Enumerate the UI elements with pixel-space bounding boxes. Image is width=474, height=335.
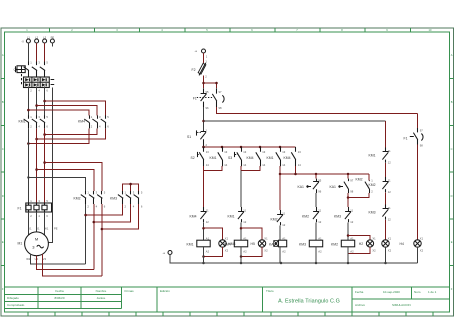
svg-text:96: 96 (318, 190, 321, 194)
svg-text:KM2: KM2 (356, 178, 363, 182)
contact NC KM3 stacked (369, 205, 392, 222)
wire KM4 pole2 return (45, 128, 98, 134)
svg-text:A2: A2 (282, 249, 286, 253)
svg-text:14: 14 (262, 163, 265, 167)
svg-text:13: 13 (298, 150, 301, 154)
coil KM1 (187, 237, 211, 254)
wire L1 drop to Q1 (27, 43, 29, 61)
svg-text:C: C (451, 147, 453, 151)
right info cells (355, 290, 437, 307)
svg-text:12: 12 (350, 220, 353, 224)
wire KM4 pole1 return (28, 128, 89, 143)
connector block X (24, 77, 55, 92)
svg-text:X2: X2 (420, 248, 424, 252)
svg-text:D: D (451, 194, 453, 198)
svg-text:X2: X2 (264, 248, 268, 252)
branch KM2: KA1 NO timed contact (330, 174, 354, 194)
svg-text:U1: U1 (28, 227, 32, 231)
svg-text:KM1: KM1 (267, 156, 274, 160)
wire F1 to motor V1 (36, 212, 38, 232)
svg-text:12: 12 (388, 190, 391, 194)
svg-text:D: D (2, 194, 4, 198)
wire L2 drop to Q1 (36, 43, 38, 61)
svg-text:1 de 1: 1 de 1 (428, 290, 437, 294)
terminal L1 (21, 36, 30, 44)
svg-text:KM1: KM1 (210, 156, 217, 160)
wire y121 to stacked column (204, 120, 386, 122)
contact KM4 feed right section (284, 147, 302, 167)
wire L2 branch to KM4 (37, 106, 98, 116)
svg-text:Num.: Num. (414, 290, 421, 294)
wire to coil KM3 (315, 222, 317, 240)
wire KM2 pole3 down (101, 204, 103, 276)
control circuit (163, 49, 424, 264)
svg-text:M1: M1 (18, 242, 23, 246)
svg-text:KM1: KM1 (369, 154, 376, 158)
left ruler row letters (2, 53, 4, 291)
svg-text:KM4: KM4 (190, 215, 197, 219)
svg-text:H2: H2 (359, 242, 363, 246)
svg-text:Janice: Janice (97, 296, 106, 300)
svg-text:E: E (451, 240, 453, 244)
wire L3 block to KM1 (44, 87, 46, 116)
svg-text:98: 98 (219, 106, 222, 110)
node lamp H2 return join (202, 255, 205, 258)
inner border frame (5, 32, 450, 312)
wire motor U2 return (37, 256, 94, 270)
wire to coil KM2 (347, 222, 349, 240)
svg-text:13: 13 (282, 150, 285, 154)
svg-text:KM4: KM4 (78, 120, 85, 124)
contact NC KM2 interlock branch KM3 (302, 207, 322, 224)
node KM4 return L2 (35, 138, 38, 141)
svg-text:Firmas: Firmas (125, 289, 135, 293)
svg-text:14: 14 (282, 163, 285, 167)
node rail KM3 coil (315, 262, 318, 265)
svg-text:11: 11 (388, 149, 391, 153)
node L2 to KM4 pole2 (35, 104, 38, 107)
svg-text:B: B (2, 100, 4, 104)
top rail (204, 146, 296, 149)
svg-text:PE: PE (54, 227, 58, 231)
svg-text:13: 13 (206, 150, 209, 154)
pushbutton S2 (191, 146, 210, 167)
node secondary rail KM1 (279, 173, 282, 176)
wire 98 to right feed (217, 107, 418, 113)
title block outline (5, 287, 450, 312)
contact S4 parallel (356, 174, 374, 194)
svg-text:F1: F1 (18, 207, 22, 211)
lamp H3 (251, 236, 269, 252)
svg-text:F1: F1 (404, 137, 408, 141)
node branch KM2 pole3 (43, 161, 46, 164)
wire F1 to motor W1 (44, 212, 46, 235)
wire L2 block to KM1 (36, 87, 38, 116)
wire L3 branch to KM4 (45, 101, 106, 115)
node lamp H5 branch (240, 227, 243, 230)
svg-text:F2: F2 (192, 68, 196, 72)
node rail start (202, 146, 205, 149)
contact KM1 seal (210, 146, 228, 167)
svg-text:X2: X2 (388, 248, 392, 252)
wire lamp1 feed (204, 228, 223, 240)
wire branch to KM2 pole1 (28, 178, 85, 192)
node pin97 branch corner (215, 82, 218, 85)
left ruler ticks (1, 79, 5, 266)
svg-text:W1: W1 (44, 227, 49, 231)
svg-text:F1: F1 (193, 96, 197, 100)
svg-text:97: 97 (219, 90, 222, 94)
svg-text:KM4: KM4 (247, 156, 254, 160)
svg-text:B: B (451, 100, 453, 104)
svg-text:H5: H5 (251, 242, 255, 246)
wire coil KM2 to rail (347, 247, 349, 263)
svg-text:A2: A2 (243, 249, 247, 253)
wire PE stub (51, 43, 53, 47)
node jumper2 (93, 221, 96, 224)
svg-text:KM2: KM2 (302, 215, 309, 219)
wire seal join branch2 (241, 166, 260, 170)
power circuit (14, 36, 143, 276)
wire NC1 to coil (203, 222, 205, 240)
svg-text:A: A (451, 53, 453, 57)
right ruler ticks (450, 79, 454, 266)
node rail lamp column (384, 262, 387, 265)
wire KA1 coil to rail (279, 247, 281, 263)
svg-text:14: 14 (243, 163, 246, 167)
svg-text:KM2: KM2 (271, 218, 278, 222)
svg-text:KM3: KM3 (299, 243, 306, 247)
svg-text:12: 12 (388, 217, 391, 221)
node lamp H2b branch (347, 234, 350, 237)
contactor KM2 main contacts (74, 190, 106, 208)
wire down to lamp H4 (417, 145, 419, 241)
wire L2 KM1 to F1 (36, 128, 38, 203)
svg-text:Nombre: Nombre (96, 289, 107, 293)
svg-text:KM2: KM2 (369, 183, 376, 187)
wire to KA1 coil (279, 225, 281, 240)
wire down to NC KM3 (347, 193, 349, 207)
svg-text:X2: X2 (372, 248, 376, 252)
wire terminal to fuse (203, 53, 205, 63)
coil KM4 (224, 237, 248, 254)
terminal L2 (35, 36, 39, 43)
wire branch2 down (240, 171, 242, 208)
svg-text:12: 12 (206, 220, 209, 224)
contactor KM1 main contacts (19, 115, 49, 129)
node KM4 return L1 (27, 142, 30, 145)
contact NC KM1 interlock branch2 (228, 207, 247, 224)
svg-text:X1: X1 (372, 236, 376, 240)
svg-text:S2: S2 (191, 156, 195, 160)
contactor KM3 main contacts (110, 190, 143, 208)
svg-text:12: 12 (388, 160, 391, 164)
node rail KM4 coil (240, 262, 243, 265)
pushbutton S3 (228, 146, 247, 167)
svg-text:X1: X1 (264, 236, 268, 240)
svg-text:KM3: KM3 (369, 211, 376, 215)
wire 96 down (203, 107, 205, 130)
title block (5, 287, 450, 312)
node branch KM2 pole1 (27, 176, 29, 178)
contact NC KM2 stacked (369, 177, 392, 194)
title cell (266, 289, 274, 293)
svg-text:X1: X1 (420, 236, 424, 240)
coil KM3 (299, 237, 323, 254)
wire jumper1 to KM3 pole1 (86, 204, 123, 215)
fuse F2 (192, 59, 208, 78)
node jumper1 (84, 214, 87, 217)
svg-text:X2: X2 (225, 248, 229, 252)
wire L3 drop to Q1 (44, 43, 46, 61)
node lamp H5 return join (240, 255, 243, 258)
branch KM3: KA1 NC timed contact (298, 174, 322, 194)
svg-text:14: 14 (298, 163, 301, 167)
bottom ruler ticks (28, 312, 433, 316)
svg-text:98: 98 (420, 143, 423, 147)
lamp H5 (382, 236, 392, 252)
svg-text:KM1: KM1 (187, 243, 194, 247)
title block left labels (7, 296, 25, 307)
svg-text:KA1: KA1 (269, 243, 276, 247)
svg-text:X1: X1 (388, 236, 392, 240)
node jumper3 (101, 228, 104, 231)
svg-text:S3: S3 (228, 156, 232, 160)
node S4 to 98 join (347, 196, 350, 199)
svg-text:Título: Título (266, 289, 274, 293)
lamp H1 (359, 236, 376, 252)
wire fuse to F1 aux (203, 76, 205, 89)
contact NC KM2 above KA1 coil (271, 210, 286, 227)
contact NC KM4 interlock branch1 (190, 207, 210, 224)
svg-text:Comprobado: Comprobado (7, 303, 25, 307)
wire KM2 pole2 down (93, 204, 95, 270)
wire L1 KM1 to F1 (27, 128, 29, 203)
contact KM1 feed right section (267, 146, 286, 167)
svg-text:A: A (2, 53, 4, 57)
motor M1 (18, 227, 58, 261)
title block vertical dividers (38, 287, 412, 312)
wire L1 block to KM1 (27, 87, 29, 116)
svg-text:KM2: KM2 (331, 243, 338, 247)
wire lamp3 return (348, 247, 370, 253)
node lamp feed line (202, 120, 205, 123)
svg-text:Archivo: Archivo (355, 303, 365, 307)
svg-text:-X: -X (21, 40, 24, 44)
pushbutton S1 (187, 128, 208, 147)
node secondary rail KM2 branch (347, 173, 350, 176)
wire to NC KM2 (315, 193, 317, 207)
svg-text:KA1: KA1 (298, 185, 305, 189)
svg-text:13: 13 (224, 150, 227, 154)
wire jumper2 to KM3 pole2 (94, 204, 131, 222)
node secondary rail KM3 branch (315, 173, 318, 176)
node rail KA1 coil (280, 262, 283, 265)
wire L3 KM1 to F1 (44, 128, 46, 203)
wire lamp2 feed (241, 228, 262, 240)
node KM4 return L3 (43, 133, 46, 136)
node L3 to KM4 pole3 (43, 100, 46, 103)
overload relay F1 (18, 199, 52, 218)
contactor KM4 main contacts (78, 115, 109, 129)
wire S4 bottom to node 98 (348, 193, 369, 198)
svg-text:Edición: Edición (160, 289, 170, 293)
wire branch to KM2 pole3 (45, 163, 102, 192)
svg-text:12: 12 (318, 220, 321, 224)
svg-text:KM4: KM4 (284, 156, 291, 160)
svg-text:Fecha: Fecha (55, 289, 64, 293)
svg-text:KM3: KM3 (110, 197, 117, 201)
svg-text:E: E (2, 240, 4, 244)
terminal bottom left (163, 251, 173, 255)
stacked NC column feed (385, 121, 387, 148)
svg-text:Fecha: Fecha (355, 290, 364, 294)
svg-text:A2: A2 (350, 249, 354, 253)
contact NC KM3 interlock branch KM2 (334, 207, 354, 224)
svg-text:V2: V2 (43, 257, 47, 261)
lamp H2 (219, 236, 236, 252)
lamp H4 (400, 236, 424, 252)
terminal PE (50, 36, 54, 43)
wire seal join branch1 (204, 166, 223, 170)
svg-text:8/06/20: 8/06/20 (54, 296, 64, 300)
svg-text:A2: A2 (318, 249, 322, 253)
wire lamp3 feed (348, 236, 370, 241)
svg-text:KM3: KM3 (334, 215, 341, 219)
svg-text:KM1: KM1 (228, 215, 235, 219)
svg-text:11: 11 (388, 206, 391, 210)
relay contact F1 95-96 / 97-98 (193, 88, 224, 110)
svg-text:Dibujado: Dibujado (7, 296, 19, 300)
svg-text:10-sep-2020: 10-sep-2020 (383, 290, 400, 294)
node branch KM2 pole2 (35, 168, 38, 171)
svg-text:KM4: KM4 (224, 243, 231, 247)
svg-text:C: C (2, 147, 4, 151)
wire F1 to motor U1 (27, 212, 29, 235)
wire jumper3 to KM3 pole3 (102, 204, 138, 229)
svg-text:14: 14 (206, 163, 209, 167)
svg-text:M: M (35, 236, 38, 241)
svg-text:S1: S1 (187, 135, 191, 139)
title block horizontal dividers (5, 295, 450, 309)
wire motor V2 return (43, 254, 102, 276)
wire L1 branch to KM4 (28, 110, 89, 115)
trip indicator column: contact F1 (417, 114, 419, 129)
top ruler ticks (50, 28, 411, 32)
wire branch to KM2 pole2 (37, 170, 94, 192)
svg-text:H4: H4 (400, 242, 404, 246)
wire lamp2 return (241, 247, 262, 256)
wire branch to pin97 (204, 83, 217, 88)
wire KM3 star bus (123, 184, 139, 191)
node rail KM2 coil (347, 262, 350, 265)
terminal control feed (195, 49, 208, 59)
node branch to 97 (202, 82, 205, 85)
node star bus (129, 183, 132, 186)
node rail KM1 coil (202, 262, 205, 265)
svg-text:14: 14 (224, 163, 227, 167)
svg-text:98: 98 (350, 190, 353, 194)
node lamp H2 branch (202, 227, 205, 230)
node L1 to KM4 pole1 (27, 109, 30, 112)
wire KM2 pole1 down (85, 204, 87, 264)
wire coil2 to rail (240, 247, 242, 263)
terminal L3 (43, 36, 47, 43)
wire branch1 down (203, 171, 205, 208)
svg-text:13: 13 (243, 150, 246, 154)
wire NC2 to coil (240, 222, 242, 240)
svg-text:97: 97 (420, 129, 423, 133)
svg-text:A2: A2 (206, 249, 210, 253)
timer coil KA1 (269, 237, 287, 254)
top ruler column numbers (26, 28, 432, 32)
wire KM4 pole3 return (37, 128, 106, 139)
wire motor W2 return (31, 254, 86, 264)
svg-text:KA1: KA1 (330, 185, 337, 189)
wire lamp1 return (204, 247, 223, 256)
contact KM4 seal (247, 146, 266, 167)
svg-text:12: 12 (243, 220, 246, 224)
wire coil1 to rail (203, 247, 205, 263)
svg-text:13: 13 (262, 150, 265, 154)
svg-text:12: 12 (282, 223, 285, 227)
node secondary rail KM4 (294, 173, 297, 176)
svg-text:97: 97 (350, 179, 353, 183)
breaker Q1 (14, 61, 49, 85)
svg-text:X1: X1 (225, 236, 229, 240)
svg-text:96: 96 (206, 106, 209, 110)
contact NC KM1 stacked (369, 148, 392, 165)
svg-text:A. Estrella Triangulo C.G: A. Estrella Triangulo C.G (278, 299, 340, 305)
svg-text:SIMULACION: SIMULACION (392, 303, 411, 307)
wire PE from block to motor (48, 88, 52, 243)
svg-text:KM2: KM2 (74, 197, 81, 201)
secondary rail (280, 166, 369, 174)
wire branch KA1 down (279, 174, 281, 210)
bottom rail (170, 255, 418, 263)
svg-text:V1: V1 (36, 227, 40, 231)
wire coil KM3 to rail (315, 247, 317, 263)
coil KM2 (331, 237, 355, 254)
